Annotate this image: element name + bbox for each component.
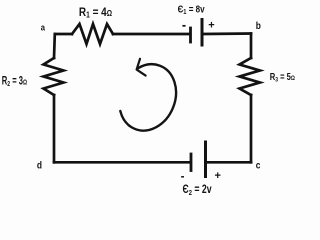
loop current arrow bbox=[120, 59, 176, 131]
wire R3 to node c bbox=[250, 95, 253, 162]
svg-text:a: a bbox=[41, 22, 45, 33]
label R1 value bbox=[79, 6, 112, 20]
resistor R2 bbox=[44, 58, 64, 95]
svg-text:c: c bbox=[256, 160, 261, 172]
wire E2 to node d bbox=[54, 161, 190, 164]
wire c to E2 bbox=[207, 161, 251, 164]
battery E1 negative plate bbox=[189, 28, 192, 42]
svg-text:Є1 = 8v: Є1 = 8v bbox=[178, 3, 206, 16]
E1 polarity minus bbox=[182, 25, 185, 27]
wire a to R1 bbox=[55, 33, 72, 36]
wire E1 to node b bbox=[204, 32, 252, 35]
label E1 value bbox=[178, 3, 206, 16]
resistor R3 bbox=[240, 58, 261, 95]
node c bbox=[256, 160, 261, 172]
resistor R1 bbox=[72, 24, 113, 44]
svg-text:+: + bbox=[208, 20, 214, 32]
wire b to R3 bbox=[250, 34, 253, 59]
wire R2 to node a bbox=[53, 34, 56, 58]
battery E2 positive plate bbox=[204, 142, 207, 177]
label E2 value bbox=[183, 184, 212, 197]
svg-text:Є2 = 2v: Є2 = 2v bbox=[183, 184, 212, 197]
battery E2 negative plate bbox=[190, 154, 193, 171]
label R2 value bbox=[2, 75, 27, 89]
node d bbox=[37, 160, 42, 172]
svg-text:R1 = 4Ω: R1 = 4Ω bbox=[79, 6, 112, 20]
label R3 value bbox=[270, 71, 296, 84]
node b bbox=[256, 20, 261, 32]
wire d to R2 bbox=[53, 95, 56, 162]
svg-text:b: b bbox=[256, 20, 261, 32]
wire R1 to E1 bbox=[113, 33, 190, 36]
svg-text:+: + bbox=[215, 170, 221, 182]
battery E1 positive plate bbox=[201, 20, 204, 46]
E2 polarity minus bbox=[181, 176, 184, 178]
svg-text:R3 = 5Ω: R3 = 5Ω bbox=[270, 71, 296, 84]
node a bbox=[41, 22, 45, 33]
svg-text:R2 = 3Ω: R2 = 3Ω bbox=[2, 75, 27, 89]
svg-text:d: d bbox=[37, 160, 42, 172]
